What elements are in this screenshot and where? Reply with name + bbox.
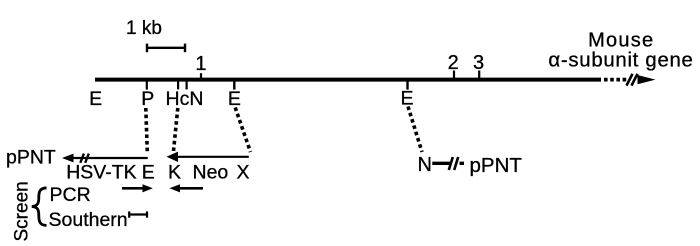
svg-text:2: 2 [448,52,459,74]
svg-text:E: E [400,88,413,110]
exon 2 tick [453,71,455,80]
vector arm 2 line [172,156,249,158]
dotted leader from Hc [174,108,178,151]
svg-text:K: K [168,161,181,183]
svg-text:HcN: HcN [166,88,204,110]
svg-text:Neo: Neo [193,161,229,183]
svg-text:E: E [228,88,241,110]
svg-text:pPNT: pPNT [470,154,523,177]
svg-text:1: 1 [195,53,206,75]
right vector line segment [432,162,450,165]
svg-text:Mouse: Mouse [588,30,653,52]
brace [32,188,47,226]
PCR primer arrow right [122,187,146,190]
right vector break // [449,157,458,170]
svg-text:Southern: Southern [49,209,128,231]
Southern probe bar [129,211,147,217]
dotted line extension [604,78,628,82]
break // on gene line [627,74,638,86]
vector arm 1 arrowhead [62,154,74,163]
gene map main line [95,78,601,82]
svg-text:α-subunit gene: α-subunit gene [548,49,693,71]
exon 3 tick [478,71,480,80]
svg-text:E: E [89,88,102,110]
site tick P [146,80,148,90]
right vector line stub [460,162,465,165]
svg-text:3: 3 [473,52,484,74]
svg-text:P: P [141,88,154,110]
dotted leader from E right [408,107,422,153]
vector arm 1 line [70,157,148,159]
svg-text:E: E [142,161,155,183]
svg-text:N: N [418,154,432,176]
PCR primer arrow left [179,187,203,190]
scale bar [147,44,185,53]
vector arm 1 break // [80,154,89,163]
site tick E mid [233,80,235,90]
exon 1 tick [200,73,202,79]
svg-text:Screen: Screen [12,181,33,241]
arrowhead of gene line [638,75,656,84]
site tick H [177,80,179,90]
dotted leader from P [146,108,148,152]
svg-text:pPNT: pPNT [6,147,56,169]
svg-text:1 kb: 1 kb [126,18,162,39]
svg-text:X: X [237,161,250,183]
dotted leader from E mid [235,108,250,153]
vector arm 2 arrowhead [167,152,179,162]
svg-text:PCR: PCR [50,184,91,206]
site tick N [186,80,188,90]
site tick E right [406,80,408,90]
svg-text:HSV-TK: HSV-TK [66,161,136,183]
